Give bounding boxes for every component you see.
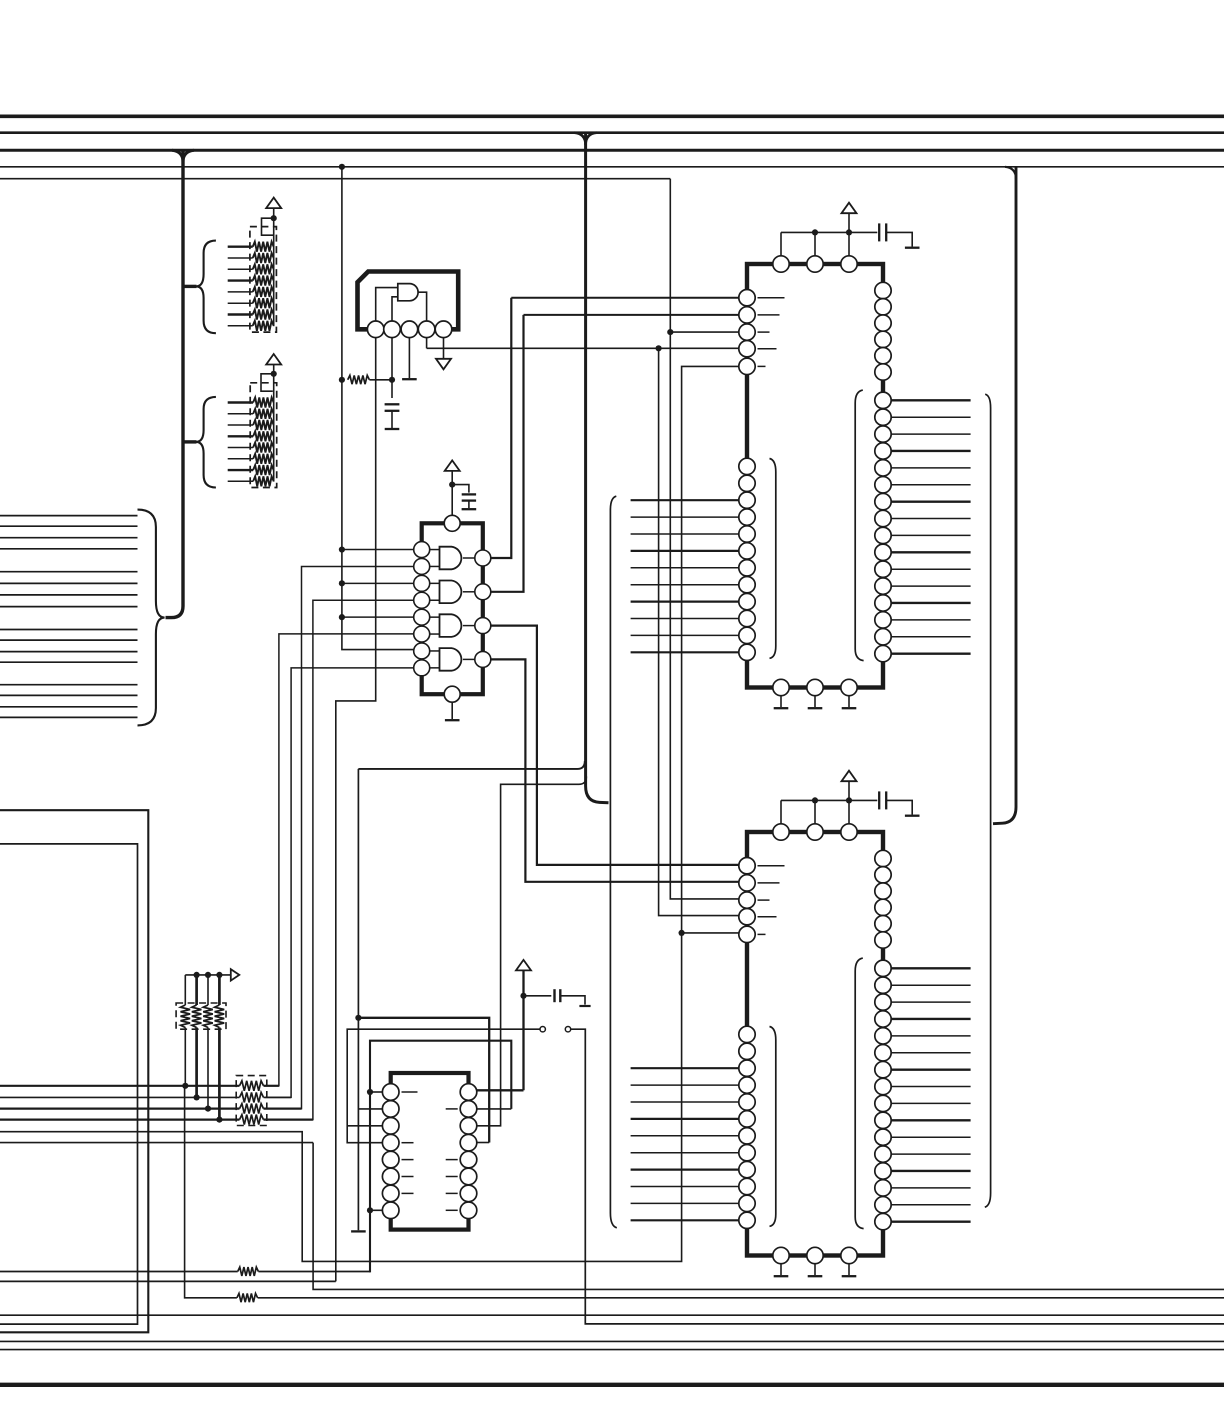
wire: RA1 lead 3 (228, 268, 253, 270)
resistor array RA1 (8 pull-up resistors, dashed outline) (250, 227, 277, 333)
wire: IC3 right bundle wire 14 (891, 619, 970, 621)
junction U1 pin2 / resistor R1 (389, 377, 395, 383)
wire: left harness line 6 (0, 582, 138, 584)
RA2 common terminal box (261, 374, 274, 391)
wire: harness line y=1097.4 from left edge (0, 1096, 240, 1098)
wire: capacitor to ground bar (886, 800, 912, 814)
U3 pin R6 inner stub (446, 1176, 458, 1178)
U1 body outline (358, 272, 459, 330)
wire: RA3-2 lower lead (195, 1028, 198, 1098)
ground (bar) (905, 247, 920, 249)
AND gate U2-D (440, 648, 462, 671)
IC4 pin L5 inner stub (758, 933, 766, 935)
resistor RA2-1 (253, 398, 274, 408)
IC3 right pin M4 (875, 443, 891, 459)
resistor array RA4 (4 series resistors, dashed outline) (236, 1076, 267, 1126)
wire: vertical bus from top line 3 down to harness brace (166, 150, 184, 617)
U3 pin R1 (460, 1084, 477, 1101)
capacitor at IC4 VCC (878, 791, 880, 809)
inner bracket (left) of IC4 (770, 1027, 776, 1227)
junction on RA2 common rail (271, 371, 277, 377)
IC3 bottom pin 1 (773, 679, 789, 695)
wire: U1 gate input B to pin 2 (392, 297, 398, 321)
IC3 right pin U6 (875, 364, 891, 380)
wire: IC4 VCC riser (848, 782, 850, 801)
wire: IC4 right bundle wire 7 (891, 1068, 970, 1070)
U3 pin R4 (460, 1134, 477, 1151)
resistor RA2-8 (253, 476, 274, 486)
IC3 right pin M13 (875, 595, 891, 611)
wire: left harness line 13 (0, 684, 138, 686)
wire: gate input stub A (430, 650, 440, 652)
IC3 left pin M8 (739, 577, 755, 593)
ground (bar) (842, 1275, 857, 1277)
AND gate U2-B (440, 581, 462, 604)
switch contact (right) (565, 1027, 570, 1032)
IC4 right pin U6 (875, 932, 891, 948)
IC3 right pin M10 (875, 544, 891, 560)
IC4 pin L3 (739, 892, 755, 908)
IC4 left pin M3 (739, 1060, 755, 1076)
IC3 pin L1 (739, 290, 755, 306)
resistor RA2-2 (253, 409, 274, 419)
ground (bar) below C2 (462, 508, 477, 510)
wire: capacitor to ground bar (886, 232, 912, 246)
U3 pin L5 inner stub (402, 1159, 414, 1161)
wire: RA2 common rail (273, 365, 275, 482)
power arrow right of RA3 (231, 969, 240, 980)
wire: line y=1097.4 to riser (264, 1096, 292, 1098)
IC3 right pin U4 (875, 331, 891, 347)
resistor RA1-8 (253, 321, 274, 331)
wire: left harness line 16 (0, 716, 138, 718)
wire: line y=1142.6 from left edge (0, 1142, 313, 1144)
wire: left harness line 14 (0, 694, 138, 696)
IC3 pin L5 inner stub (758, 365, 766, 367)
wire: RA2 lead 7 (228, 469, 253, 471)
wire: U3 pin L3 tap (347, 1125, 382, 1127)
IC4 left pin M10 (739, 1178, 755, 1194)
wire: IC3 right bundle wire 12 (891, 585, 970, 587)
IC4 right pin U5 (875, 916, 891, 932)
AND gate inside U1 (398, 284, 418, 301)
wire: IC4 right bundle wire 2 (891, 984, 970, 986)
wire: nested open box inner (left edge) (0, 844, 138, 1324)
wire: IC3 left bundle wire 3 (631, 533, 739, 535)
resistor array RA3 (4 resistors, dashed outline) (176, 1003, 226, 1029)
wire: IC4 left bundle wire 9 (631, 1202, 739, 1204)
wire: to U2 input 5 (342, 616, 414, 618)
resistor RA1-4 (253, 276, 274, 286)
wire: switch feed from U3 pin L4 (347, 1029, 540, 1143)
wire: gate input stub B (430, 667, 440, 669)
wire: IC4 right bundle wire 9 (891, 1102, 970, 1104)
U3 pin L5 (382, 1151, 399, 1168)
wire: IC3 top pin 3 riser (848, 232, 850, 255)
wire: to U2 input 3 (342, 582, 414, 584)
wire: left harness line 12 (0, 661, 138, 663)
wire: line y=1085.8 to riser (264, 1085, 279, 1087)
ground (bar) (842, 707, 857, 709)
U1 pin 4 (418, 321, 435, 338)
wire: bottom heavy rule (0, 1383, 1224, 1387)
wire: RA3-2 upper lead (195, 975, 198, 1005)
wire: IC3 left bundle wire 9 (631, 634, 739, 636)
wire: RA3 top common bus (185, 974, 231, 976)
wire: harness line y=1119.6 from left edge (0, 1118, 240, 1120)
wire: U2 GND lead (451, 702, 453, 719)
wire: left harness line 7 (0, 594, 138, 596)
wire: U2 input 8 from line y=1097 (265, 668, 414, 1098)
wire: IC3 right bundle wire 10 (891, 551, 970, 553)
U3 pin L7 inner stub (402, 1192, 414, 1194)
wire: IC4 top pin 1 riser (780, 800, 782, 823)
resistor RA1-5 (253, 287, 274, 297)
wire: IC3 right bundle wire 2 (891, 416, 970, 418)
IC4 right pin M1 (875, 960, 891, 976)
wire: bus stub to RA1 brace (184, 285, 197, 288)
wire: C1 lower lead (391, 411, 393, 428)
wire: left harness line 5 (0, 571, 138, 573)
wire: net with U3 pins L1, L8, R2 down to bottom resistor line (370, 1041, 511, 1273)
IC3 pin L5 (739, 358, 755, 374)
ground (bar) (774, 1275, 789, 1277)
junction on VCC tie (846, 229, 852, 235)
U1 pin 2 (384, 321, 401, 338)
IC4 top pin 3 (841, 824, 857, 840)
wire: IC3 pin L5 loop down to IC4 pin L5 and bottom left (0, 366, 739, 1261)
IC3 right pin M6 (875, 477, 891, 493)
wire: left harness line 4 (0, 548, 138, 550)
junction RA3-3 / line (205, 1106, 211, 1112)
capacitor C2 (U2 VCC to ground) (462, 493, 476, 495)
wire: top line 5 drop to IC3 pin L3 and IC4 pin L3 (670, 179, 739, 899)
IC4 right pin U2 (875, 867, 891, 883)
wire: U3 pin R1 lead (477, 1089, 524, 1091)
wire: IC3 top pin 2 riser (814, 232, 816, 255)
wire: U2 output3 down to IC4 pin L1 (491, 626, 739, 865)
U3 pin R5 inner stub (446, 1159, 458, 1161)
wire: IC4 right bundle wire 11 (891, 1136, 970, 1138)
terminal bar at U1 pin3 (402, 378, 417, 380)
IC3 top pin 1 (773, 256, 789, 272)
wire: to capacitor C3 (524, 995, 552, 997)
IC4 right pin M7 (875, 1061, 891, 1077)
wire: IC3 right bundle wire 9 (891, 534, 970, 536)
U2 output pin 1 (475, 550, 491, 566)
resistor RA2-7 (253, 465, 274, 475)
power symbol feeding U3 pin R1 (516, 960, 531, 971)
resistor RA4-2 (240, 1092, 264, 1102)
wire: left harness line 2 (0, 525, 138, 527)
U2 input pin 1 (414, 542, 430, 558)
wire: bottom pin ground lead (848, 696, 850, 707)
wire: bottom pin ground lead (814, 696, 816, 707)
wire: RA2 lead 5 (228, 447, 253, 449)
wire: gate output stub (463, 591, 475, 593)
U1 pin 3 (401, 321, 418, 338)
U2 input pin 4 (414, 592, 430, 608)
wire: IC4 left bundle wire 6 (631, 1152, 739, 1154)
U3 pin L4 inner stub (402, 1142, 414, 1144)
wire: IC4 right bundle wire 3 (891, 1001, 970, 1003)
wire: RA2 lead 4 (228, 435, 253, 437)
wire: IC4 right bundle wire 6 (891, 1052, 970, 1054)
junction on RA3 bus (205, 972, 211, 978)
wire: RA2 lead 6 (228, 458, 253, 460)
wire: RA1 lead 8 (228, 325, 253, 327)
IC3 left pin M3 (739, 492, 755, 508)
junction on RA3 bus (216, 972, 222, 978)
wire: IC4 right bundle wire 13 (891, 1170, 970, 1172)
IC4 left pin M9 (739, 1161, 755, 1177)
wire: line y=1297.8 to right edge (258, 1297, 1224, 1299)
wire: RA3-3 lower lead (207, 1028, 209, 1109)
junction RA3-4 / line (216, 1117, 222, 1123)
ground (bar) (808, 707, 823, 709)
wire: bottom pin ground lead (780, 1264, 782, 1275)
wire: drop from U1 pin4 run to IC4 pin L4 (659, 348, 739, 915)
wire: harness line y=1108.6 from left edge (0, 1107, 240, 1109)
AND gate U2-C (440, 614, 462, 637)
wire: top horizontal line 5 (0, 178, 670, 180)
wire: top horizontal bus line 1 (thick) (0, 114, 1224, 118)
wire: U2 input 2 from line y=1108 (265, 566, 414, 1108)
resistor RA1-1 (253, 242, 274, 252)
IC4 right pin M10 (875, 1112, 891, 1128)
IC3 bottom pin 2 (807, 679, 823, 695)
inner bracket (right) of IC3 (855, 390, 863, 660)
wire: vertical bus from top line 4 down to right bus bracket (993, 167, 1016, 824)
wire: bus corner fillet left (575, 133, 586, 145)
ground (bar) (905, 815, 920, 817)
wire: gate input stub A (430, 549, 440, 551)
capacitor C3 (U3 VCC to ground) (553, 989, 555, 1002)
wire: U3 pin R3 loop up and right into left bus bracket (477, 777, 587, 1126)
ground (bar) below C3 (579, 1005, 590, 1007)
IC4 left pin M2 (739, 1043, 755, 1059)
wire: VCC drop to U3 pin R1 (522, 970, 524, 1090)
IC3 pin L4 (739, 341, 755, 357)
IC4 right pin M4 (875, 1011, 891, 1027)
wire: RA3-4 upper lead (218, 975, 221, 1005)
resistor array RA2 (8 pull-up resistors, dashed outline) (250, 383, 277, 488)
IC3 top pin 3 (841, 256, 857, 272)
junction RA3-1 / line (182, 1083, 188, 1089)
resistor RA1-7 (253, 310, 274, 320)
IC3 right pin M1 (875, 392, 891, 408)
resistor RA3-4 (215, 1005, 225, 1028)
wire: to U2 input 1 (342, 549, 414, 551)
brace for left harness bundle (138, 510, 165, 726)
IC3 right pin U2 (875, 299, 891, 315)
wire: IC4 right bundle wire 12 (891, 1153, 970, 1155)
wire: U1 pin4 output run to IC3 pin L4 (427, 347, 739, 349)
IC4 left pin M8 (739, 1145, 755, 1161)
IC4 pin L2 inner stub (758, 882, 780, 884)
power symbol above RA1 (266, 198, 281, 209)
wire: chain from y=769 run down left of U3 to ground (357, 769, 359, 1230)
wire: IC4 VCC tie bus (781, 799, 849, 801)
resistor RA2-3 (253, 420, 274, 430)
IC3 left pin M5 (739, 526, 755, 542)
switch contact (left) (540, 1027, 545, 1032)
wire: IC4 left bundle wire 7 (631, 1168, 739, 1170)
IC3 left pin M1 (739, 458, 755, 474)
IC4 right pin M5 (875, 1028, 891, 1044)
IC3 right pin M12 (875, 578, 891, 594)
IC4 bottom pin 3 (841, 1247, 857, 1263)
IC4 right pin M6 (875, 1045, 891, 1061)
wire: left harness line 11 (0, 651, 138, 653)
wire: IC3 left bundle wire 10 (631, 651, 739, 653)
junction RA3-2 / line (194, 1094, 200, 1100)
wire: riser to line y=1289.4 (313, 1143, 1224, 1290)
U2 output pin 4 (475, 651, 491, 667)
brace for RA2 leads (196, 397, 216, 488)
wire: IC4 left bundle wire 4 (631, 1118, 739, 1120)
wire: IC4 right bundle wire 8 (891, 1086, 970, 1088)
U3 pin L6 (382, 1168, 399, 1185)
wire: IC3 right bundle wire 3 (891, 433, 970, 435)
resistor RA3-3 (203, 1005, 213, 1028)
ground (bar) below U2 (445, 719, 460, 721)
U3 pin R7 (460, 1185, 477, 1202)
IC4 left pin M1 (739, 1026, 755, 1042)
IC4 right pin U4 (875, 899, 891, 915)
wire: RA1 lead 5 (228, 291, 253, 293)
IC3 right pin M9 (875, 527, 891, 543)
wire: RA2 lead 8 (228, 480, 253, 482)
junction: U2 VCC / capacitor C2 (449, 482, 455, 488)
wire: C3 to ground bar (560, 996, 585, 1005)
resistor RA2-6 (253, 454, 274, 464)
wire: IC3 VCC riser (848, 214, 850, 233)
IC3 right pin M3 (875, 426, 891, 442)
wire: left harness line 10 (0, 639, 138, 641)
wire: IC3 right bundle wire 5 (891, 467, 970, 469)
wire: horizontal line y=1281 to left edge (0, 1280, 336, 1282)
IC3 pin L2 inner stub (758, 314, 780, 316)
junction: chain / thick run to R4 riser (355, 1015, 361, 1021)
wire: RA3-1 upper lead (184, 975, 186, 1005)
wire: gate input stub B (430, 565, 440, 567)
IC3 right pin M15 (875, 629, 891, 645)
resistor RA2-5 (253, 443, 274, 453)
wire: IC4 left bundle wire 10 (631, 1219, 739, 1221)
wire: U1 pin1 down, left, down to bottom-left line (336, 338, 376, 1282)
wire: to decoupling capacitor (849, 799, 877, 801)
IC3 pin L3 inner stub (758, 331, 770, 333)
AND gate U2-A (440, 547, 462, 570)
wire: RA1 lead 6 (228, 302, 253, 304)
IC3 right pin M5 (875, 460, 891, 476)
IC3 right pin M16 (875, 645, 891, 661)
ground (bar) below U3 chain (351, 1230, 366, 1232)
wire: bus corner fillet right (183, 150, 194, 162)
wire: branch to U3 pin L2 (358, 1108, 382, 1110)
IC4 top pin 1 (773, 824, 789, 840)
U3 pin L1 inner stub (402, 1091, 418, 1093)
wire: U2 output4 down to IC4 pin L2 (491, 659, 739, 881)
IC4 bottom pin 2 (807, 1247, 823, 1263)
wire: left harness line 3 (0, 537, 138, 539)
wire: bottom line y=1271 to L1/L8 net (258, 1271, 370, 1273)
IC3 bottom pin 3 (841, 679, 857, 695)
junction: loop / IC4 pin L5 wire (679, 930, 685, 936)
junction: drop / IC3 pin L3 wire (667, 329, 673, 335)
wire: branch to U3 pin L8 (370, 1209, 382, 1211)
wire: gate input stub A (430, 616, 440, 618)
wire: IC3 left bundle wire 8 (631, 618, 739, 620)
IC4 right pin U1 (875, 850, 891, 866)
wire: U2 output1 up (491, 298, 512, 558)
IC3 pin L3 (739, 324, 755, 340)
wire: gate input stub B (430, 599, 440, 601)
wire: IC4 right bundle wire 4 (891, 1018, 970, 1020)
wire: IC4 right bundle wire 5 (891, 1035, 970, 1037)
junction on VCC tie (812, 229, 818, 235)
wire: U2 input 6 from line y=1086 (265, 634, 414, 1086)
wire: RA1 common rail (273, 208, 275, 326)
wire: IC3 right bundle wire 1 (891, 399, 970, 401)
IC4 right pin U3 (875, 883, 891, 899)
RA1 common terminal box (262, 218, 274, 235)
U2 output pin 2 (475, 584, 491, 600)
IC4 pin L2 (739, 875, 755, 891)
U1 pin 5 (435, 321, 452, 338)
wire: IC3 VCC tie bus (781, 231, 849, 233)
IC3 pin L1 inner stub (758, 297, 785, 299)
IC3 right pin M7 (875, 493, 891, 509)
wire: U3 pin R4 to riser x=489 (477, 1142, 489, 1144)
U3 pin L3 (382, 1118, 399, 1135)
wire: run y=769 from chain top rightwards into left bus bracket (358, 761, 584, 769)
wire: bus corner fillet (1005, 167, 1016, 179)
IC4 pin L1 inner stub (758, 865, 785, 867)
wire: IC3 left bundle wire 5 (631, 567, 739, 569)
U3 pin L1 (382, 1084, 399, 1101)
wire: nested open box outer (left edge) (0, 810, 148, 1332)
junction: pin4 run / drop to IC4 (656, 345, 662, 351)
bus bracket (left, spans IC3/IC4 left wire bundles) (610, 496, 616, 1228)
wire: U1 pin5 down to sheet arrow (443, 338, 445, 359)
IC4 right pin M9 (875, 1095, 891, 1111)
U2 input pin 8 (414, 660, 430, 676)
wire: bottom pin ground lead (780, 696, 782, 707)
U3 pin R5 (460, 1151, 477, 1168)
IC3 left pin M4 (739, 509, 755, 525)
wire: line y=1108.6 to riser (264, 1107, 302, 1109)
wire: bottom line y=1271 left part (0, 1271, 238, 1273)
wire: gate input stub B (430, 633, 440, 635)
junction on RA3 bus (194, 972, 200, 978)
U3 pin L7 (382, 1185, 399, 1202)
wire: U2 VCC riser (451, 472, 453, 516)
off-sheet arrow below U1 pin5 (436, 359, 451, 370)
wire: IC3 right bundle wire 16 (891, 652, 970, 654)
U2 output pin 3 (475, 618, 491, 634)
wire: U1 gate output to pin 4 (418, 292, 426, 321)
IC4 pin L1 (739, 858, 755, 874)
U3 pin L4 (382, 1134, 399, 1151)
wire: bus corner fillet left (172, 150, 183, 162)
IC4 pin L3 inner stub (758, 899, 770, 901)
junction on VCC tie (846, 797, 852, 803)
inner bracket (right) of IC4 (855, 958, 863, 1229)
wire: IC3 left bundle wire 6 (631, 584, 739, 586)
wire: U3 pin R2 to riser (477, 1108, 512, 1110)
